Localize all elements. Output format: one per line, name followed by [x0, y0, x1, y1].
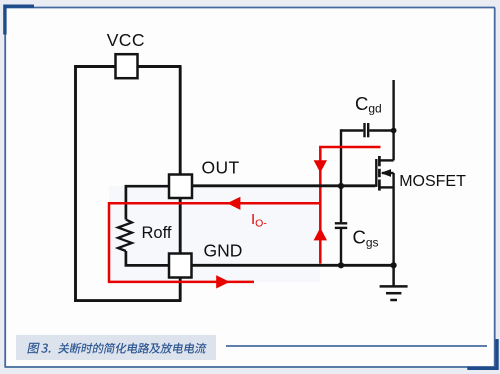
OUT terminal box — [169, 175, 192, 199]
capacitor Cgd — [341, 123, 394, 137]
resistor Roff — [118, 220, 132, 252]
wire: OUT to gate — [192, 184, 375, 187]
transistor MOSFET — [376, 80, 393, 265]
caption box — [16, 335, 216, 360]
svg-text:Roff: Roff — [142, 224, 172, 242]
svg-text:OUT: OUT — [202, 158, 240, 178]
caption text — [27, 343, 206, 354]
capacitor Cgs — [335, 223, 347, 265]
junction dots — [338, 128, 397, 269]
red arrow right — [216, 275, 230, 288]
wire: gate node vertical — [340, 129, 342, 222]
svg-text:GND: GND — [204, 241, 243, 261]
GND terminal box — [169, 254, 192, 278]
caption rule — [226, 345, 487, 347]
node gate junction — [338, 183, 344, 189]
wire: small loop to resistor — [126, 186, 169, 265]
wire: GND rail — [192, 264, 394, 267]
VCC terminal box — [116, 54, 138, 78]
red arrow down — [314, 160, 327, 173]
red arrow left — [227, 197, 240, 210]
ground — [380, 265, 408, 300]
wire: big loop left/top/bottom — [74, 65, 181, 302]
wire: red discharge path — [109, 147, 381, 282]
red arrow up — [314, 228, 327, 241]
svg-text:VCC: VCC — [107, 30, 145, 50]
svg-text:MOSFET: MOSFET — [399, 173, 466, 190]
